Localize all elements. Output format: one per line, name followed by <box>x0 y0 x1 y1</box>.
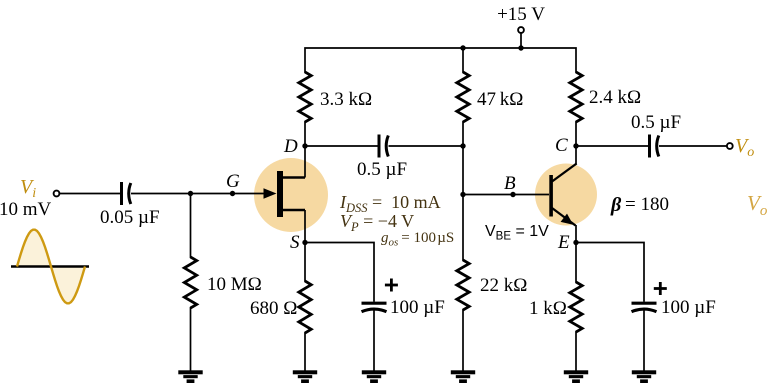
resistor 680 Ohm <box>299 281 311 333</box>
wire C to output cap <box>576 145 650 147</box>
wire rail to R 47k <box>462 48 464 73</box>
wire S to 680 <box>304 243 306 283</box>
wire S to bypass cap <box>305 243 374 302</box>
svg-text:+15 V: +15 V <box>497 4 545 25</box>
capacitor 0.5uF interstage <box>378 135 381 158</box>
svg-text:0.5 µF: 0.5 µF <box>357 159 407 180</box>
junction bias resistor <box>188 191 193 196</box>
node B <box>510 192 515 197</box>
highlight behind BJT Q2 <box>535 164 597 226</box>
wire 22k to ground <box>462 309 464 371</box>
resistor 1 kOhm <box>570 282 582 332</box>
BJT Q2 <box>549 146 576 243</box>
svg-text:2.4 kΩ: 2.4 kΩ <box>589 87 641 108</box>
svg-text:C: C <box>555 135 568 156</box>
input sine wave axis <box>11 265 89 267</box>
wire input cap to gate <box>131 193 266 195</box>
wire bypass cap to ground <box>373 310 375 372</box>
wire D to coupling cap <box>305 145 379 147</box>
ground divider <box>451 370 475 374</box>
node C <box>573 143 578 148</box>
output terminal Vo <box>727 143 733 149</box>
resistor 3.3 kOhm <box>299 72 311 122</box>
svg-text:10 MΩ: 10 MΩ <box>207 274 262 295</box>
wire output cap to Vo terminal <box>659 145 726 147</box>
wire junction down to 10M <box>190 194 192 259</box>
junction 47k top <box>460 45 465 50</box>
junction divider at D line <box>460 143 465 148</box>
node E <box>573 240 578 245</box>
svg-text:0.05 µF: 0.05 µF <box>100 207 160 228</box>
wire cap to 47k/22k junction <box>389 145 464 147</box>
svg-text:3.3 kΩ: 3.3 kΩ <box>320 89 372 110</box>
capacitor 0.5uF output <box>648 135 651 158</box>
input sine wave <box>17 230 85 304</box>
wire emitter bypass to ground <box>643 310 645 372</box>
svg-text:100 µF: 100 µF <box>390 297 445 318</box>
ground emitter resistor <box>564 370 588 374</box>
wire 47k down to base junction <box>462 121 464 195</box>
capacitor 100uF emitter bypass <box>632 302 657 305</box>
ground source resistor <box>293 370 317 374</box>
svg-text:β: β <box>610 194 622 216</box>
svg-text:VBE = 1V: VBE = 1V <box>485 223 549 243</box>
svg-text:B: B <box>504 173 516 194</box>
svg-text:= 180: = 180 <box>625 194 669 215</box>
ground emitter bypass <box>632 370 656 374</box>
input sine wave fill <box>17 230 85 304</box>
svg-text:680 Ω: 680 Ω <box>250 298 297 319</box>
wire supply to rail <box>520 33 522 48</box>
resistor 47 kOhm <box>457 72 469 122</box>
svg-text:0.5 µF: 0.5 µF <box>631 112 681 133</box>
wire 680 to ground <box>304 332 306 371</box>
wire E to 1k <box>575 243 577 284</box>
svg-text:22 kΩ: 22 kΩ <box>480 275 527 296</box>
svg-text:10 mV: 10 mV <box>0 199 52 220</box>
wire 2.4k to node C <box>575 121 577 146</box>
svg-text:47 kΩ: 47 kΩ <box>477 89 523 110</box>
ground source bypass <box>362 370 386 374</box>
capacitor 100uF source bypass <box>362 302 387 305</box>
wire 10M to ground <box>190 307 192 371</box>
svg-text:E: E <box>557 232 570 253</box>
svg-text:1 kΩ: 1 kΩ <box>529 298 567 319</box>
node D <box>302 143 307 148</box>
input terminal Vi <box>54 191 60 197</box>
wire E to bypass cap 2 <box>576 243 644 302</box>
svg-text:100 µF: 100 µF <box>661 297 716 318</box>
svg-text:S: S <box>290 232 300 253</box>
wire Vi to input cap <box>60 193 122 195</box>
JFET Q1 <box>264 147 306 243</box>
wire 3.3k to node D <box>304 121 306 146</box>
resistor 10 MOhm <box>184 257 196 308</box>
svg-text:G: G <box>226 171 240 192</box>
capacitor 0.05uF input <box>120 182 123 205</box>
wire divider to 22k <box>462 195 464 262</box>
top supply rail wire <box>305 48 576 73</box>
ground input bias <box>178 370 202 374</box>
resistor 22 kOhm <box>457 260 469 310</box>
node G <box>230 191 235 196</box>
highlight behind JFET Q1 <box>254 158 328 232</box>
resistor 2.4 kOhm <box>570 72 582 122</box>
svg-text:D: D <box>283 136 298 157</box>
junction base line at divider <box>460 192 465 197</box>
junction supply rail <box>518 45 523 50</box>
wire 1k to ground <box>575 331 577 371</box>
wire base line <box>463 194 549 196</box>
node S <box>302 240 307 245</box>
